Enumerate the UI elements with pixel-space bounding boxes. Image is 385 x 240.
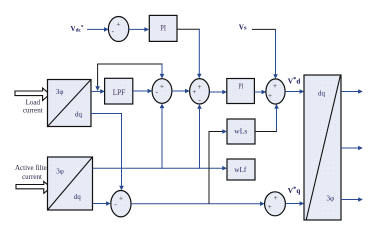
wire branch up to S2 bottom [197, 104, 202, 169]
block wLf [227, 159, 255, 180]
wire Vdc* to summing junction S0 [87, 27, 109, 32]
wire S1 to S2 [172, 89, 190, 94]
svg-text:PI: PI [239, 82, 244, 91]
svg-text:+: + [273, 81, 277, 90]
svg-text:+: + [119, 193, 123, 202]
wire PI1 down to summing junction S2 [197, 29, 202, 78]
svg-text:+: + [192, 87, 196, 96]
svg-text:Vs: Vs [239, 23, 247, 31]
wire branch up to wLs input [209, 129, 227, 204]
label Vs [239, 23, 247, 31]
block B1 3phase-to-dq load [48, 80, 92, 127]
block wLs [227, 119, 255, 144]
wire branch up to S1 bottom [160, 104, 165, 169]
summing junction S5 [265, 192, 286, 216]
wire S4 to S5 [131, 201, 265, 206]
hollow arrow load current input [15, 88, 50, 101]
summing junction S1 [152, 79, 172, 104]
wire output phase c [341, 197, 363, 202]
wire output phase b [341, 146, 363, 151]
svg-text:current: current [23, 107, 43, 115]
summing junction S0 [108, 17, 128, 42]
wire S5 to dq-3phase block [285, 201, 304, 206]
summing junction S3 [266, 79, 285, 104]
label Load current [23, 99, 43, 115]
block B2 3phase-to-dq active filter [48, 157, 93, 210]
svg-text:+: + [274, 193, 278, 202]
svg-text:dq: dq [75, 110, 83, 118]
block LPF [105, 78, 133, 104]
svg-text:+: + [268, 91, 272, 100]
wire S3 to dq-3phase block [285, 89, 304, 94]
svg-text:wLf: wLf [234, 165, 246, 174]
svg-text:+: + [197, 82, 201, 91]
block BIG dq-to-3phase [304, 75, 341, 220]
svg-text:PI: PI [160, 23, 166, 32]
wire B1 d-output to LPF [91, 89, 105, 94]
wire Vs horizontal [252, 28, 276, 30]
summing junction S4 [111, 191, 131, 217]
svg-text:V*d: V*d [288, 76, 301, 85]
label Vdc* [71, 25, 84, 34]
wire wLs output up to S3 bottom [255, 104, 279, 132]
wire LPF to S1 [133, 89, 152, 94]
wire output phase a [341, 89, 363, 94]
wire PI2 to S3 [254, 90, 266, 95]
svg-text:+: + [160, 81, 164, 90]
svg-text:dq: dq [318, 90, 326, 98]
svg-text:LPF: LPF [113, 87, 126, 97]
svg-text:+: + [267, 202, 271, 211]
wire top feedback horizontal black [97, 63, 162, 65]
label Active filter current [15, 164, 50, 181]
summing junction S2 [190, 79, 210, 105]
svg-text:current: current [22, 173, 42, 181]
svg-text:3φ: 3φ [56, 88, 64, 96]
svg-text:Vdc*: Vdc* [71, 25, 84, 34]
wire Vs down to summing junction S3 [273, 29, 278, 78]
block PI2 [227, 79, 255, 104]
svg-text:Load: Load [26, 99, 41, 107]
svg-text:dq: dq [74, 193, 82, 201]
wire B1 q-output down to S4 top [91, 114, 124, 191]
svg-text:+: + [116, 20, 120, 29]
wire S2 to PI2 [209, 90, 227, 95]
wire down into summing junction S1 top [160, 64, 165, 79]
block PI1 [149, 15, 177, 41]
label V*q [288, 186, 301, 195]
wire B2 d-output to wLf with branches [93, 166, 227, 171]
label V*d [288, 76, 301, 85]
svg-text:wLs: wLs [234, 127, 247, 136]
wire PI1 output horizontal [177, 28, 200, 30]
wire B2 q-output to S4 left [93, 201, 111, 206]
wire branch junction up from LPF input [95, 64, 100, 91]
svg-text:3φ: 3φ [56, 168, 64, 176]
svg-text:3φ: 3φ [327, 194, 335, 202]
hollow arrow active filter current input [16, 182, 51, 194]
svg-text:V*q: V*q [288, 186, 301, 195]
wire S0 to PI1 [129, 27, 149, 32]
svg-text:Active filter: Active filter [15, 164, 50, 172]
